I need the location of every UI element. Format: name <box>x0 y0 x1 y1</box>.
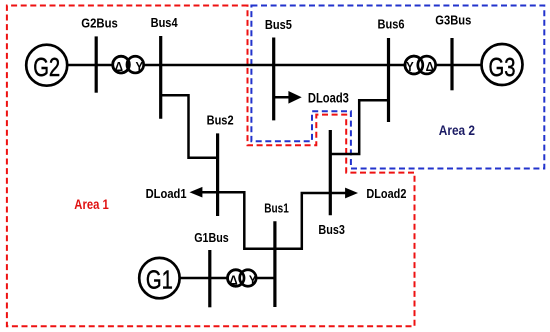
transformer T3 (Y-Delta) between Bus6 and G3Bus <box>405 56 436 74</box>
svg-text:G3Bus: G3Bus <box>435 13 471 28</box>
generator G2 <box>26 45 67 86</box>
load arrow DLoad2 (points right) <box>345 188 358 199</box>
load arrow DLoad1 (points left) <box>190 187 203 198</box>
svg-text:Δ: Δ <box>426 59 434 74</box>
wire: main transmission line G2 to G3 <box>66 64 481 67</box>
wire: DLoad3 tap from Bus5 <box>274 96 291 99</box>
svg-text:Y: Y <box>136 59 144 74</box>
svg-text:DLoad1: DLoad1 <box>146 186 187 201</box>
svg-text:Bus4: Bus4 <box>151 15 179 30</box>
svg-text:Y: Y <box>406 59 414 74</box>
svg-text:Bus2: Bus2 <box>207 112 234 127</box>
svg-text:Bus6: Bus6 <box>378 17 405 32</box>
svg-text:Δ: Δ <box>229 272 237 287</box>
svg-text:Area 1: Area 1 <box>74 196 109 212</box>
bus bar Bus5 <box>272 38 275 121</box>
transformer T2 (Delta-Y) between G2Bus and Bus4 <box>113 56 144 74</box>
bus bar Bus3 <box>329 130 332 215</box>
svg-text:G3: G3 <box>489 52 516 82</box>
svg-text:Bus3: Bus3 <box>318 222 345 237</box>
transformer T1 (Delta-Y) between G1Bus and Bus1 <box>228 270 257 288</box>
svg-text:G1Bus: G1Bus <box>194 230 229 245</box>
bus bar Bus1 <box>273 221 276 307</box>
svg-text:Y: Y <box>249 272 257 287</box>
svg-text:G2: G2 <box>33 52 60 82</box>
Area 1 boundary (red dashed) <box>7 6 415 327</box>
svg-text:G2Bus: G2Bus <box>81 16 118 31</box>
Area 2 boundary (blue dashed) <box>251 6 544 169</box>
load arrow DLoad3 (points right) <box>288 91 301 104</box>
svg-text:Area 2: Area 2 <box>439 122 475 138</box>
generator G3 <box>482 44 523 85</box>
bus bar G3Bus <box>450 38 453 90</box>
bus bar G2Bus <box>95 36 98 92</box>
svg-text:DLoad3: DLoad3 <box>308 89 349 105</box>
svg-text:G1: G1 <box>146 265 173 295</box>
svg-text:Δ: Δ <box>115 59 123 74</box>
bus bar G1Bus <box>208 250 211 307</box>
generator G1 <box>139 258 179 298</box>
bus bar Bus2 <box>216 133 219 216</box>
svg-text:DLoad2: DLoad2 <box>366 186 406 201</box>
wire: G1 feeder line <box>179 277 275 280</box>
wire: Bus6 to Bus3 branch <box>330 100 389 154</box>
svg-text:Bus5: Bus5 <box>265 17 292 32</box>
wire: DLoad1 tap and Bus2 to Bus1 connector <box>196 192 275 249</box>
bus bar Bus6 <box>387 38 390 122</box>
svg-text:Bus1: Bus1 <box>264 200 289 215</box>
wire: Bus1 to Bus3 connector and DLoad2 tap <box>275 193 348 249</box>
wire: Bus4 to Bus2 branch <box>161 95 216 158</box>
bus bar Bus4 <box>159 36 162 119</box>
